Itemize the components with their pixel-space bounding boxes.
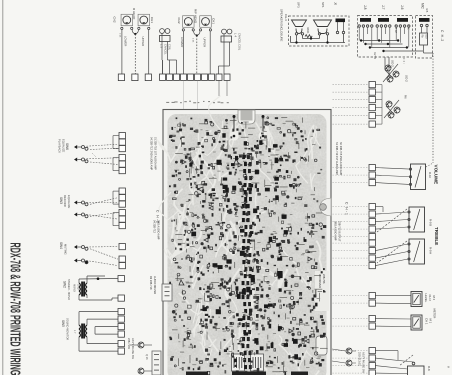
svg-text:EQUALIZE: EQUALIZE <box>67 195 71 208</box>
svg-text:R-8: R-8 <box>427 366 431 371</box>
svg-text:STEREO - MONO: STEREO - MONO <box>67 279 71 300</box>
svg-text:PLAYBACK: PLAYBACK <box>58 139 62 153</box>
svg-text:LEVEL: LEVEL <box>424 294 428 303</box>
svg-text:D9 23B-718: D9 23B-718 <box>149 276 152 290</box>
svg-text:CANCEL COIL: CANCEL COIL <box>238 33 242 51</box>
svg-text:R601: R601 <box>306 28 309 35</box>
svg-text:R HEAD: R HEAD <box>132 8 136 20</box>
svg-text:S1 23B-719 1ST AUDIO AMP: S1 23B-719 1ST AUDIO AMP <box>335 142 338 175</box>
svg-text:R/P HEAD: R/P HEAD <box>194 9 198 24</box>
svg-text:ASS'Y PAUSE SW: ASS'Y PAUSE SW <box>362 352 365 373</box>
svg-text:AUX: AUX <box>407 25 410 30</box>
svg-text:L 5: L 5 <box>160 44 164 48</box>
svg-text:OD DRIVER: OD DRIVER <box>318 274 321 288</box>
svg-text:04 23B-712 2ND AUDIO AMP: 04 23B-712 2ND AUDIO AMP <box>150 137 153 170</box>
svg-text:CANCEL: CANCEL <box>164 44 168 55</box>
svg-text:CH-3: CH-3 <box>284 14 288 21</box>
svg-text:01 23B-718 1ST AUDIO AMP: 01 23B-718 1ST AUDIO AMP <box>154 137 157 170</box>
svg-text:23B-713 OUTPUT: 23B-713 OUTPUT <box>338 221 341 242</box>
svg-text:C H-2: C H-2 <box>440 30 444 42</box>
svg-text:R-9 A: R-9 A <box>429 247 433 254</box>
svg-text:LOWER: LOWER <box>123 36 127 46</box>
svg-text:J-7: J-7 <box>381 5 385 10</box>
svg-text:LOWER: LOWER <box>180 37 184 47</box>
svg-text:SPEAKER ENCLOSURE: SPEAKER ENCLOSURE <box>280 9 284 42</box>
svg-text:L 4: L 4 <box>234 33 238 37</box>
svg-text:M 2: M 2 <box>432 296 436 301</box>
svg-text:MONO: MONO <box>73 284 76 292</box>
svg-text:SW2: SW2 <box>63 281 67 288</box>
svg-text:TREBLE: TREBLE <box>434 227 439 245</box>
svg-text:SO 2: SO 2 <box>405 75 409 82</box>
svg-text:J0: J0 <box>334 2 338 6</box>
svg-text:CH1: CH1 <box>150 17 154 23</box>
svg-text:AUDIO DRIVER: AUDIO DRIVER <box>153 276 156 294</box>
svg-text:J-6: J-6 <box>400 5 404 10</box>
svg-text:04 23B-712: 04 23B-712 <box>153 220 156 234</box>
svg-text:CH 2: CH 2 <box>428 295 432 302</box>
svg-text:SW3: SW3 <box>59 197 63 204</box>
svg-text:UPPER: UPPER <box>203 38 207 48</box>
svg-text:SW4: SW4 <box>59 242 63 249</box>
svg-text:CH2: CH2 <box>177 18 181 24</box>
svg-text:EXT SP: EXT SP <box>394 25 397 34</box>
svg-text:R-10: R-10 <box>428 172 432 179</box>
svg-text:SP1: SP1 <box>321 2 325 8</box>
svg-text:4-5: 4-5 <box>425 8 429 13</box>
svg-text:METER: METER <box>433 309 437 319</box>
svg-text:KEY B: KEY B <box>373 52 376 59</box>
svg-text:R-9 B: R-9 B <box>429 219 433 226</box>
svg-text:CH 1: CH 1 <box>425 318 429 325</box>
svg-text:SP3: SP3 <box>297 2 301 8</box>
svg-text:RDX-708 & RDW-708 PRINTED WIRI: RDX-708 & RDW-708 PRINTED WIRING <box>7 243 24 375</box>
svg-text:GND: GND <box>77 284 80 290</box>
svg-text:C H-1: C H-1 <box>345 202 349 216</box>
svg-text:SW6: SW6 <box>65 143 69 150</box>
svg-text:23B-7139: 23B-7139 <box>127 338 130 349</box>
svg-text:3RD AUDIO AMP: 3RD AUDIO AMP <box>157 220 160 240</box>
svg-text:3RD AUDIO AMP: 3RD AUDIO AMP <box>334 221 337 241</box>
svg-text:SO 2: SO 2 <box>391 60 395 67</box>
svg-text:S0 23B-705 2ND AUDIO AMP: S0 23B-705 2ND AUDIO AMP <box>339 142 342 176</box>
svg-text:UPPER: UPPER <box>141 37 145 47</box>
svg-text:V: V <box>447 366 451 368</box>
svg-text:CH1: CH1 <box>211 18 215 24</box>
svg-text:ASS'Y PAUSE SW: ASS'Y PAUSE SW <box>131 338 134 359</box>
svg-text:VOLUME: VOLUME <box>434 165 439 185</box>
svg-text:RECORD: RECORD <box>63 195 67 207</box>
svg-text:J-8: J-8 <box>363 5 367 10</box>
svg-text:SOUND MONITOR: SOUND MONITOR <box>66 318 70 340</box>
svg-text:M 1: M 1 <box>429 319 433 324</box>
svg-text:R6: R6 <box>404 95 408 99</box>
svg-text:MUTING: MUTING <box>64 244 68 255</box>
svg-text:CH2: CH2 <box>113 17 117 23</box>
svg-text:23B-756: 23B-756 <box>322 274 325 284</box>
svg-text:COIL: COIL <box>168 44 172 51</box>
svg-text:Q 13: Q 13 <box>145 354 148 360</box>
svg-text:2SD-313 (E): 2SD-313 (E) <box>358 352 361 366</box>
svg-text:MIC: MIC <box>421 3 425 10</box>
svg-text:SW5: SW5 <box>61 320 65 327</box>
svg-text:600: 600 <box>425 35 428 40</box>
svg-text:EQUALIZE: EQUALIZE <box>62 139 66 152</box>
